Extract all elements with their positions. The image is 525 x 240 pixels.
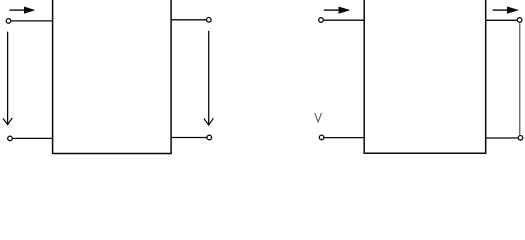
current arrow (right network, top-right output) (493, 7, 519, 14)
wire (left network, box to top-right terminal) (171, 19, 206, 21)
terminal circle (right network, top-left) (319, 18, 324, 23)
label V (right network, lower-left) (315, 113, 322, 122)
terminal circle (left network, bottom-left) (8, 136, 13, 141)
wire (left network, box to bottom-right terminal) (171, 137, 207, 139)
wire (right network, box to bottom-right terminal) (486, 137, 518, 139)
terminal circle (right network, top-right) (517, 18, 522, 23)
current arrow I1 (left network, top-left input) (9, 7, 35, 14)
voltage arrow V1 (left network, left side, pointing down) (3, 32, 12, 125)
wire (right network, top-left terminal to box) (324, 19, 365, 21)
current arrow (right network, top-left input) (324, 7, 351, 14)
terminal circle (right network, bottom-left) (319, 135, 324, 140)
wire (right network, box to top-right terminal) (486, 19, 517, 21)
terminal circle (left network, top-left) (6, 19, 11, 24)
terminal circle (right network, bottom-right) (518, 136, 523, 141)
terminal circle (left network, bottom-right) (207, 135, 212, 140)
voltage arrow V2 (left network, right side, pointing down) (204, 31, 213, 125)
network box (left two-port, top edge cropped) (53, 0, 172, 154)
terminal circle (left network, top-right) (207, 18, 212, 23)
wire (left network, bottom-left terminal to box) (13, 137, 54, 139)
network box (right two-port, top edge cropped) (364, 0, 486, 153)
wire (right network, bottom-left terminal to box) (324, 137, 365, 139)
wire (left network, top-left terminal to box) (11, 20, 53, 22)
wire (right network, right side vertical between terminals) (519, 23, 521, 134)
